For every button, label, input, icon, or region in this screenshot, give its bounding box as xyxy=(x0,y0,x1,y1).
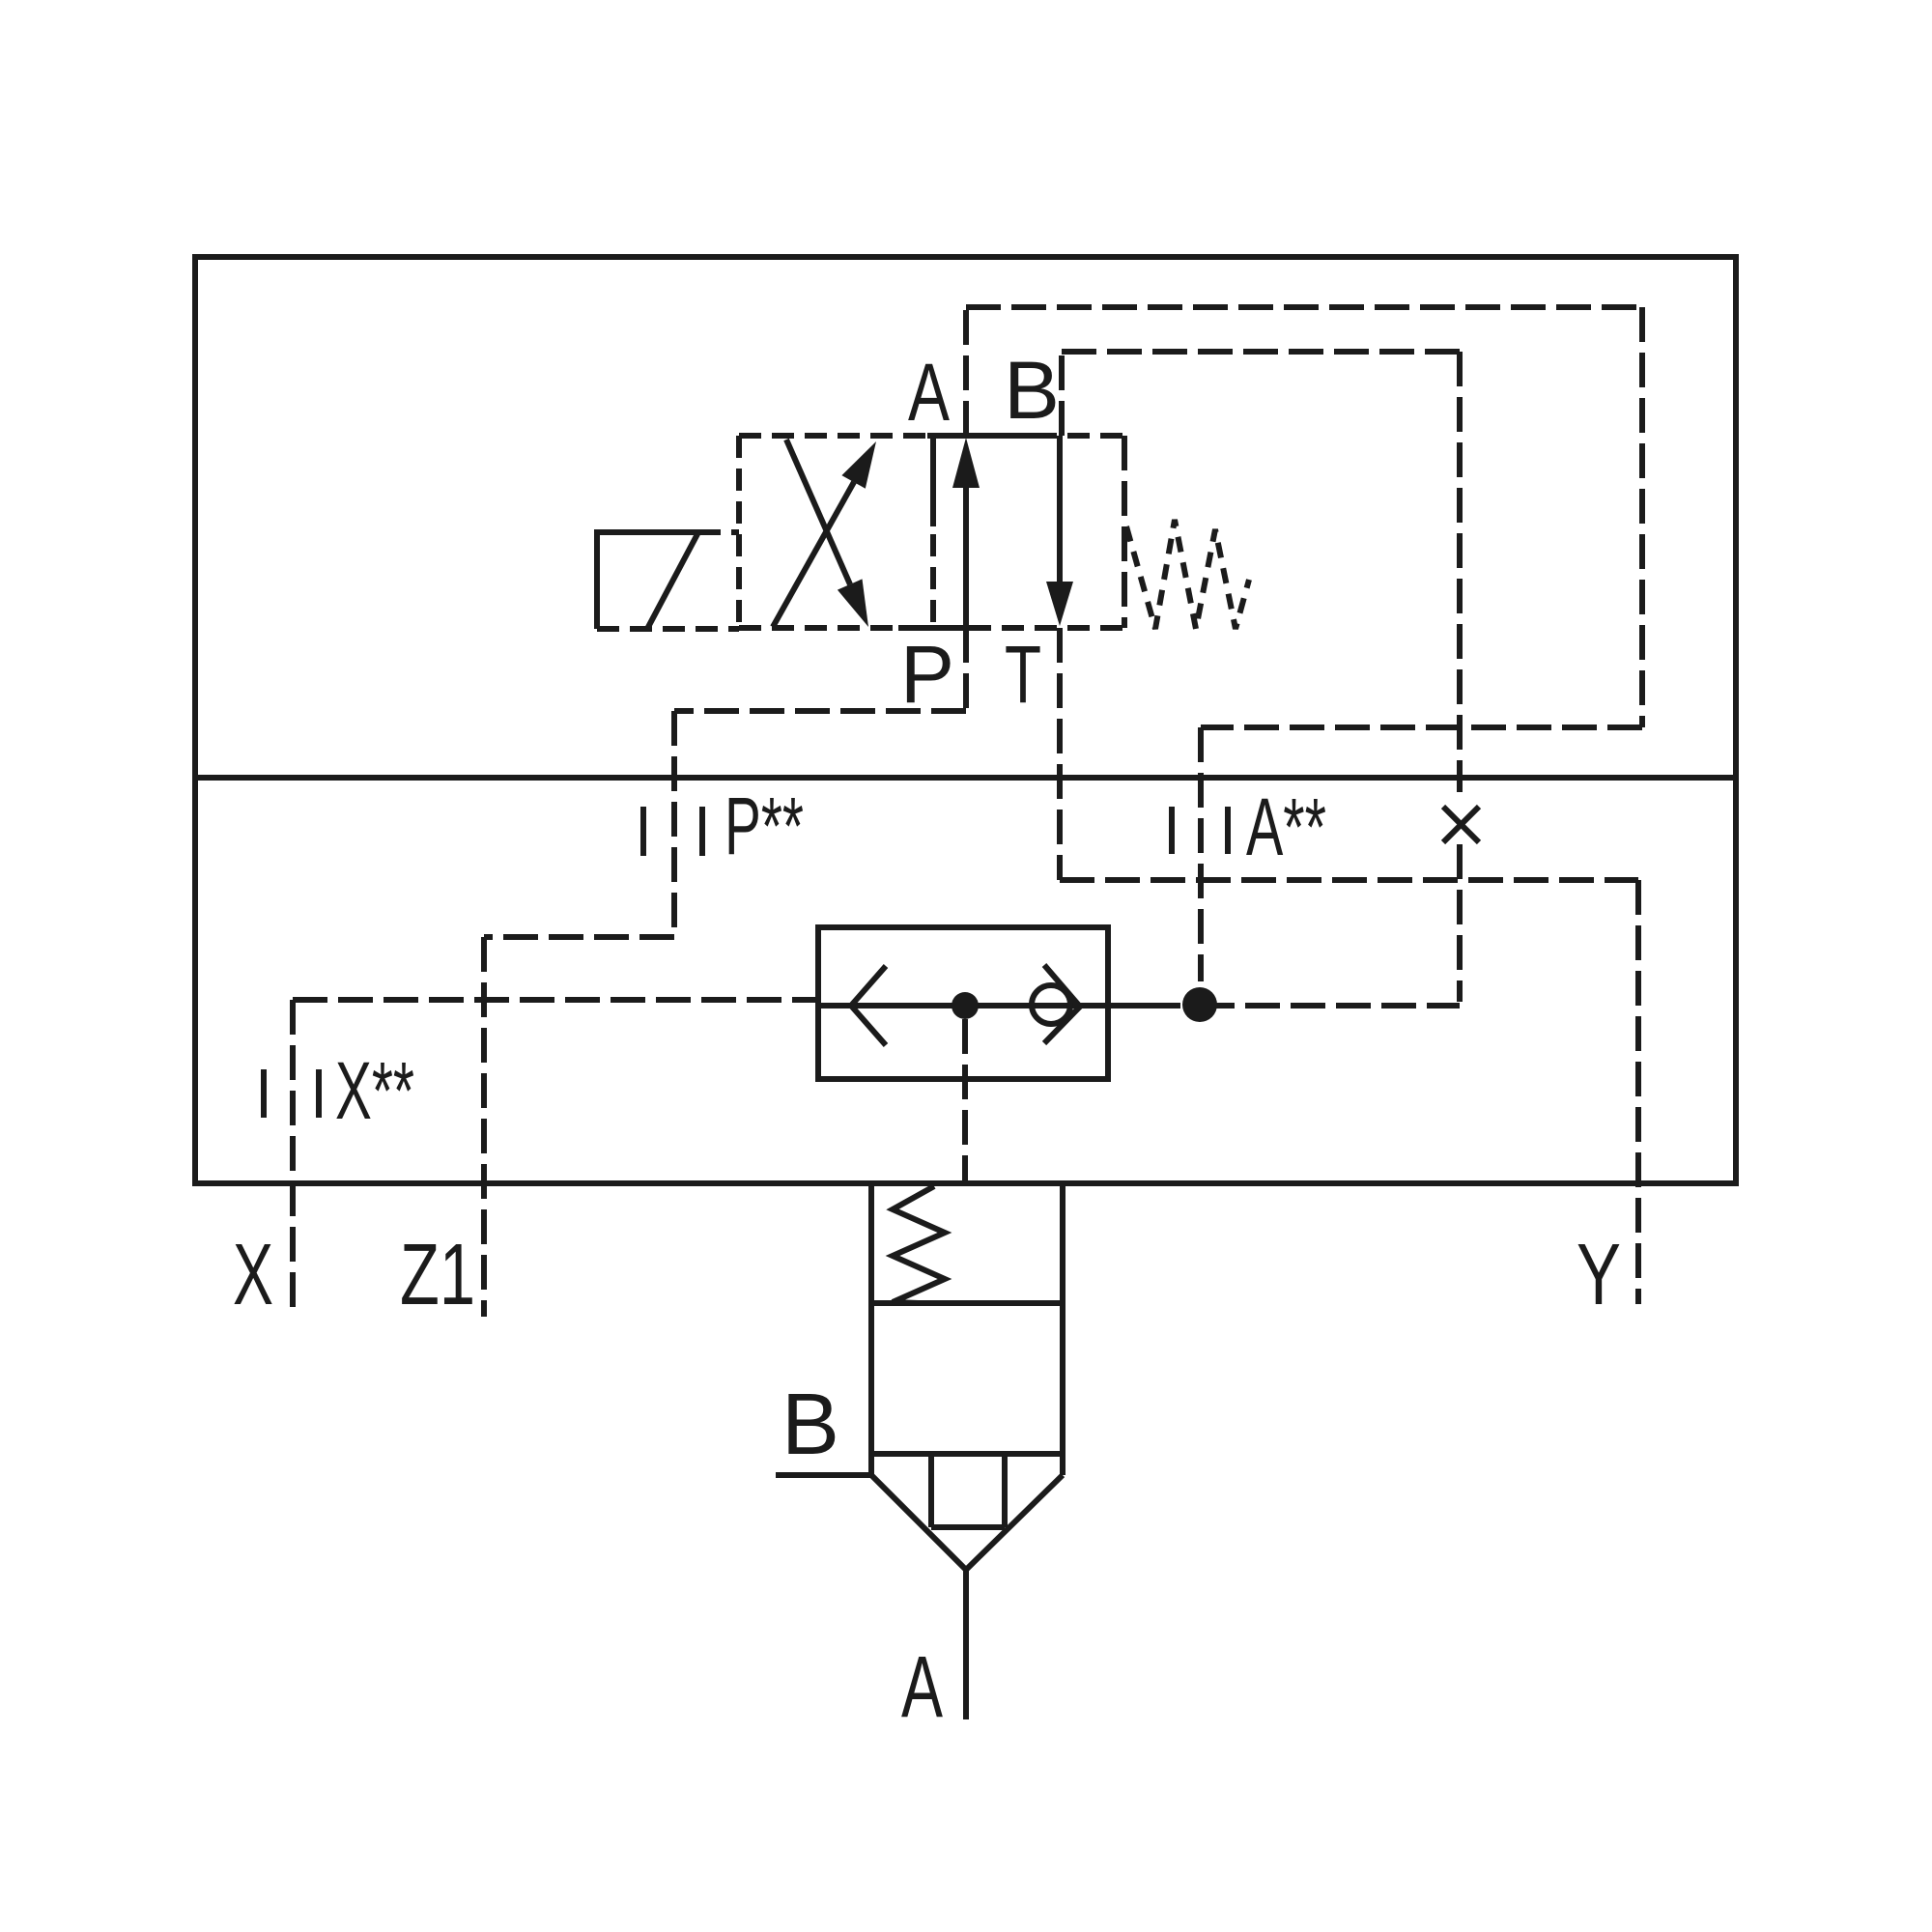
wire B loop right xyxy=(1457,352,1463,1002)
check valve junction ball (filled) xyxy=(952,992,979,1019)
wire X to check valve xyxy=(293,997,818,1003)
wire A loop down to node xyxy=(1198,727,1204,981)
wire A port up xyxy=(963,307,969,436)
solenoid Y1 xyxy=(597,532,739,629)
wire P down xyxy=(963,628,969,711)
cartridge spring xyxy=(893,1186,945,1303)
block divider line xyxy=(195,775,1736,781)
cartridge valve right edge xyxy=(1060,1183,1065,1475)
svg-text:X**: X** xyxy=(335,1045,414,1136)
check valve left seat xyxy=(851,966,886,1045)
flow arrow B to T (right position) xyxy=(1046,436,1073,626)
svg-text:X: X xyxy=(233,1227,273,1323)
crossed flow arrow (left position, down-right) xyxy=(786,440,868,627)
cartridge seat rectangle xyxy=(931,1454,1005,1527)
label A** with break bars xyxy=(1172,807,1228,854)
wire to Z1 xyxy=(484,934,674,940)
wire port A (cartridge) xyxy=(963,1570,969,1719)
flow arrow P to A (right position) xyxy=(952,438,980,628)
svg-text:A**: A** xyxy=(1246,781,1326,872)
pilot valve V1 body (4/2 directional valve) xyxy=(739,436,1124,628)
svg-text:B: B xyxy=(1004,345,1060,436)
label P** with break bars xyxy=(643,807,702,856)
cartridge body divider xyxy=(871,1451,1063,1457)
wire pilot to cartridge spring chamber xyxy=(962,1019,968,1180)
svg-text:P**: P** xyxy=(724,781,804,871)
wire T to Y xyxy=(1060,877,1638,883)
pilot valve return spring xyxy=(1126,520,1249,629)
node junction dot xyxy=(1182,987,1217,1022)
svg-text:A: A xyxy=(908,347,950,438)
crossed flow arrow (left position, up-right) xyxy=(773,441,876,627)
wire A loop top xyxy=(966,304,1642,310)
svg-text:Y: Y xyxy=(1577,1227,1621,1323)
svg-text:B: B xyxy=(781,1377,839,1473)
wire check valve outlet to node xyxy=(1151,1003,1180,1009)
check valve through line xyxy=(818,1003,1151,1009)
svg-text:T: T xyxy=(1005,629,1041,720)
wire A loop right xyxy=(1639,307,1645,727)
check valve ball (open) xyxy=(1032,985,1070,1024)
svg-text:P: P xyxy=(900,629,954,720)
wire port B (cartridge) xyxy=(776,1472,871,1478)
check valve U2 body xyxy=(818,927,1108,1079)
svg-text:Z1: Z1 xyxy=(400,1227,475,1323)
port closed mark (x) on B loop xyxy=(1443,807,1479,842)
wire Z1 port xyxy=(481,937,487,1317)
wire T down xyxy=(1057,628,1063,880)
wire node to B loop xyxy=(1200,1003,1460,1009)
cartridge valve LC1 left edge xyxy=(868,1183,874,1475)
wire B loop top xyxy=(1062,349,1460,355)
cartridge poppet cone xyxy=(871,1475,1063,1570)
label X** with break bars xyxy=(264,1069,319,1118)
wire A loop bottom xyxy=(1201,724,1642,730)
manifold block boundary xyxy=(195,257,1736,1183)
wire P** vertical xyxy=(671,711,677,937)
wire B port up xyxy=(1059,352,1065,436)
svg-text:A: A xyxy=(901,1639,943,1736)
wire Y port xyxy=(1635,880,1641,1304)
check valve right seat xyxy=(1044,965,1080,1043)
cartridge spring chamber divider xyxy=(871,1300,1063,1306)
wire X port vertical xyxy=(290,1000,296,1317)
wire P left xyxy=(674,708,966,714)
